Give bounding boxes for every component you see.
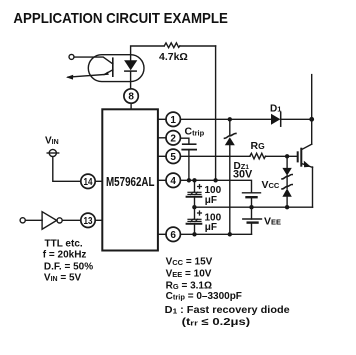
junction pin1 wire / Dz1 [228,117,232,121]
resistor 4.7k zigzag [164,43,180,48]
svg-text:VCC: VCC [262,179,280,191]
svg-text:Ctrip = 0–3300pF: Ctrip = 0–3300pF [166,291,242,302]
svg-text:VIN = 5V: VIN = 5V [44,272,82,283]
pin 8 [124,89,138,103]
transistor base bar of optocoupler [112,58,114,76]
pin 6 [158,227,181,241]
capacitor Ctrip [182,144,196,149]
op-amp U1 M57962AL IC box [102,109,158,250]
text block values [165,257,290,328]
svg-text:M57962AL: M57962AL [106,175,155,189]
wire D1 to collector node [281,118,312,120]
resistor RG zigzag [250,153,266,159]
pin 2 [158,131,181,145]
pin 1 [158,112,181,126]
junction pin6 / cap chain [192,232,196,236]
svg-text:μF: μF [205,222,217,233]
emitter arrowhead [103,72,109,76]
junction gate / protection zeners [285,154,289,158]
svg-text:VEE = 10V: VEE = 10V [166,269,212,280]
svg-text:VIN: VIN [45,136,59,147]
optocoupler input terminal circle [69,54,74,59]
wire pin 5 to RG [180,155,250,157]
plus sign C2 [198,211,202,215]
svg-text:14: 14 [84,177,93,188]
svg-text:13: 13 [84,216,93,227]
zener pair gate protection [282,156,292,207]
transistor emitter with arrow [105,70,113,74]
capacitor C1 100uF electrolytic [187,192,202,207]
svg-text:5: 5 [170,152,176,163]
wire diode cathode to pin 8 [130,71,132,89]
junction Ctrip / pin4 wire [187,178,191,182]
optocoupler LED diode triangle [124,60,137,70]
junction pin4 wire / cap chain [192,178,196,182]
junction rail / batteries [249,205,253,209]
pin 13 [81,213,103,227]
transistor Q1 IGBT [298,144,313,207]
svg-text:1: 1 [170,115,176,126]
wire collector stub up [311,75,313,120]
svg-text:D.F. = 50%: D.F. = 50% [44,261,93,272]
svg-text:D1 : Fast recovery diode: D1 : Fast recovery diode [165,305,290,316]
wire pin 8 to IC top [130,103,132,109]
wire pin 4 to VCC battery [180,180,251,192]
svg-text:2: 2 [170,133,176,144]
TTL input terminal [20,218,25,223]
wire from resistor to right corner [180,45,216,47]
svg-text:VCC = 15V: VCC = 15V [166,257,213,268]
wire inverter to pin 13 [62,219,81,221]
svg-text:RG: RG [251,140,266,152]
junction collector node [309,117,314,122]
svg-text:TTL etc.: TTL etc. [45,239,83,250]
svg-text:4: 4 [170,176,176,187]
pin 14 [81,174,103,188]
svg-text:f = 20kHz: f = 20kHz [43,249,87,260]
wire collector node down to IGBT [311,119,313,144]
wire terminal to inverter [25,219,42,221]
plus sign C1 [198,185,202,189]
diode D1 [271,112,281,126]
junction rail / zener pair [285,205,289,209]
text block TTL [43,239,93,284]
wire emitter long arrow to lower-left [68,75,104,78]
battery VEE [243,207,262,234]
wire pin 2 to Ctrip [180,138,189,143]
svg-text:μF: μF [205,195,217,206]
wire emitter rail [194,206,312,208]
pin 4 [158,173,181,187]
wire pin 1 to D1 [180,118,271,120]
pin 5 [158,149,181,163]
wire Ctrip down to pin4 wire [188,150,190,181]
wire vertical from 4.7k resistor down to Vcc rail (pin 4 wire) [215,46,217,180]
battery VCC [243,193,261,207]
junction on pin4 wire at x=215.6 [213,178,217,182]
arrowhead at wire end [66,75,73,80]
wire pin 6 rail [180,233,251,235]
wire VIN to pin 14 [53,157,81,182]
svg-text:8: 8 [128,92,134,103]
svg-text:30V: 30V [233,169,253,181]
inverter TTL buffer [42,212,62,230]
VIN input terminal [47,149,59,156]
svg-text:D1: D1 [270,104,281,115]
svg-text:APPLICATION CIRCUIT EXAMPLE: APPLICATION CIRCUIT EXAMPLE [13,10,228,27]
wire RG to IGBT gate [266,155,298,157]
zener Dz1 [225,119,236,234]
junction Dz1 to pin6 wire [228,232,232,236]
svg-text:6: 6 [170,230,176,241]
svg-text:Ctrip: Ctrip [185,126,205,138]
svg-text:RG = 3.1Ω: RG = 3.1Ω [166,280,212,291]
wire top rail from optocoupler diode to resistor [131,46,164,60]
svg-text:4.7kΩ: 4.7kΩ [159,51,188,63]
optocoupler PC1 body [88,55,144,82]
wire opto collector [74,57,113,64]
svg-text:(trr ≤ 0.2μs): (trr ≤ 0.2μs) [182,317,251,328]
value label C2 100uF [205,212,222,233]
optocoupler LED cathode bar [125,70,136,72]
capacitor C2 100uF electrolytic [187,207,202,234]
svg-text:VEE: VEE [264,216,281,228]
junction rail / cap chain [192,205,196,209]
value label C1 100uF [205,185,222,206]
wire pin4 to capacitor C1 [194,180,196,192]
